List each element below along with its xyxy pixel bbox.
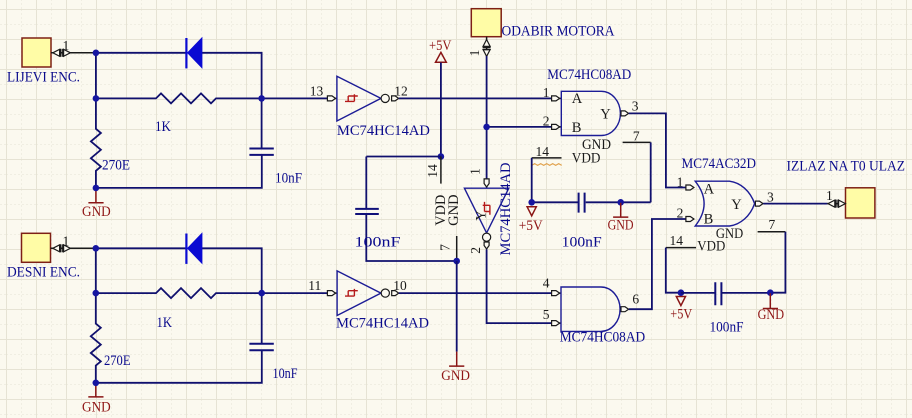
port LIJEVI ENC. — [7, 38, 80, 86]
wire bottom loop bottom-left — [96, 350, 262, 383]
pin 1 of port DESNI ENC. — [51, 233, 96, 252]
AND gate U2B MC74HC08AD — [543, 275, 646, 345]
resistor R 1K top — [96, 93, 262, 135]
svg-text:Y: Y — [474, 210, 490, 221]
svg-text:1: 1 — [826, 188, 833, 203]
pin 14 VDD of U2A — [532, 144, 601, 166]
wire pin3 OR to port — [763, 203, 828, 205]
svg-text:7: 7 — [633, 128, 640, 143]
svg-text:1: 1 — [677, 175, 684, 190]
pin 7 GND of U2A — [582, 128, 651, 202]
ground GND center — [441, 352, 470, 384]
svg-text:1: 1 — [467, 50, 482, 57]
ground GND bottom-left — [82, 383, 111, 415]
power +5V top — [429, 38, 452, 157]
svg-text:1: 1 — [467, 168, 482, 175]
svg-text:10nF: 10nF — [275, 170, 302, 186]
wire pin12 to AND A — [399, 97, 552, 99]
svg-text:100nF: 100nF — [562, 235, 602, 251]
svg-text:2: 2 — [468, 247, 483, 254]
pin 1 of port ODABIR MOTORA — [467, 37, 490, 57]
svg-text:1: 1 — [543, 85, 550, 100]
junction (440.9,156.5) — [438, 153, 445, 160]
svg-text:5: 5 — [543, 307, 550, 322]
junction (620.7,202.3) — [617, 199, 624, 206]
capacitor 100nF mid — [562, 193, 651, 251]
svg-text:1K: 1K — [157, 315, 173, 331]
resistor R 270E top — [91, 98, 130, 187]
pin 14 VDD of U3A — [666, 233, 726, 293]
wire node B down — [95, 248, 97, 293]
port DESNI ENC. — [7, 233, 80, 280]
svg-text:10nF: 10nF — [273, 366, 298, 382]
svg-text:100nF: 100nF — [710, 320, 744, 336]
schmitt inverter U1C MC74HC14AD rotated — [464, 162, 514, 255]
svg-text:GND: GND — [758, 307, 785, 323]
wire node B top — [96, 247, 187, 249]
svg-text:GND: GND — [441, 368, 470, 384]
wire bottom loop top-left — [96, 155, 262, 188]
svg-text:A: A — [704, 181, 715, 197]
svg-text:MC74HC08AD: MC74HC08AD — [560, 330, 646, 346]
junction (456.7,261) — [453, 258, 460, 265]
svg-text:B: B — [704, 211, 714, 227]
junction (531.7,202.3) — [528, 199, 535, 206]
capacitor 100nF right — [681, 282, 770, 336]
junction (95.9,187.9) — [93, 185, 100, 192]
pin 7 GND of U1C — [438, 236, 457, 261]
ground GND bottom right — [758, 293, 785, 323]
wire node A top — [96, 52, 186, 54]
svg-text:13: 13 — [310, 83, 324, 98]
wire node A down — [95, 53, 97, 99]
svg-text:VDD: VDD — [697, 239, 725, 255]
ground GND top-left — [82, 188, 111, 219]
capacitor 10nF bottom — [249, 293, 297, 382]
diode D2 — [186, 234, 202, 264]
svg-text:270E: 270E — [102, 158, 130, 174]
svg-text:GND: GND — [608, 218, 634, 234]
svg-text:3: 3 — [767, 190, 774, 205]
junction (486.6,126.9) — [483, 124, 490, 131]
svg-text:14: 14 — [670, 233, 684, 248]
wire diode to corner and down — [202, 53, 262, 99]
junction (261.7,293.1) — [258, 290, 265, 297]
svg-text:DESNI ENC.: DESNI ENC. — [7, 265, 80, 281]
AND gate U2A MC74HC08AD — [543, 67, 639, 136]
diode D1 — [186, 38, 202, 68]
svg-text:2: 2 — [543, 113, 550, 128]
svg-text:3: 3 — [632, 98, 639, 113]
power +5V mid — [519, 207, 543, 234]
wire ODABIR down — [486, 56, 488, 179]
pin 1 of port LIJEVI ENC. — [51, 38, 96, 57]
wire pin3 to OR pin1 — [629, 113, 686, 187]
junction (95.8,382.8) — [93, 380, 100, 387]
svg-text:6: 6 — [632, 292, 639, 307]
svg-text:MC74HC14AD: MC74HC14AD — [498, 162, 514, 255]
resistor R 270E bottom — [91, 293, 131, 383]
svg-text:14: 14 — [536, 144, 550, 159]
svg-text:IZLAZ NA T0 ULAZ: IZLAZ NA T0 ULAZ — [787, 159, 906, 175]
svg-text:MC74AC32D: MC74AC32D — [682, 156, 757, 172]
junction (95.9,52.8) — [93, 50, 100, 57]
wire gnd rail down — [456, 261, 458, 352]
wire pin2 of U1C to AND pin5 — [487, 249, 552, 323]
svg-text:270E: 270E — [104, 353, 131, 369]
svg-text:11: 11 — [308, 278, 321, 293]
port ODABIR MOTORA — [471, 9, 614, 40]
capacitor 10nF top — [249, 98, 302, 186]
wire pin13 — [262, 97, 328, 99]
svg-text:MC74HC08AD: MC74HC08AD — [547, 67, 631, 83]
junction (95.9,98.4) — [93, 95, 100, 102]
schmitt inverter U1B MC74HC14AD bottom — [308, 271, 429, 332]
schmitt inverter U1A MC74HC14AD top — [310, 76, 430, 139]
power +5V bottom right — [670, 297, 692, 323]
port IZLAZ NA T0 ULAZ — [787, 159, 906, 218]
svg-text:12: 12 — [394, 83, 408, 98]
svg-text:ODABIR MOTORA: ODABIR MOTORA — [502, 24, 615, 40]
svg-text:Y: Y — [600, 106, 611, 122]
svg-text:B: B — [572, 120, 582, 136]
svg-text:1: 1 — [63, 38, 70, 53]
svg-text:A: A — [572, 91, 583, 107]
svg-text:+5V: +5V — [670, 306, 692, 322]
svg-text:7: 7 — [769, 217, 776, 232]
pin 7 GND of U3A — [716, 217, 786, 293]
ground GND mid — [608, 203, 634, 234]
svg-text:10: 10 — [393, 278, 407, 293]
svg-text:2: 2 — [677, 206, 684, 221]
svg-text:1: 1 — [63, 233, 70, 248]
svg-text:LIJEVI ENC.: LIJEVI ENC. — [7, 70, 80, 86]
pin 1 of port IZLAZ — [826, 188, 846, 208]
pin 14 VDD of U1C — [425, 157, 441, 184]
wire pin6 to OR pin2 — [629, 219, 686, 309]
svg-text:MC74HC14AD: MC74HC14AD — [337, 123, 430, 139]
wire branch to AND B — [487, 126, 552, 128]
wire pin14 down to +5V rail — [532, 158, 578, 202]
svg-text:14: 14 — [425, 164, 440, 178]
resistor R 1K bottom — [96, 288, 262, 331]
svg-text:100nF: 100nF — [355, 235, 401, 251]
junction (680.9,292.7) — [678, 289, 685, 296]
OR gate U3A MC74AC32D — [677, 156, 774, 227]
svg-text:+5V: +5V — [429, 38, 452, 54]
junction (261.6,98.4) — [258, 95, 265, 102]
junction (770.3,292.7) — [767, 289, 774, 296]
svg-text:GND: GND — [82, 400, 111, 416]
svg-text:+5V: +5V — [519, 218, 543, 234]
junction (95.8,248.3) — [93, 245, 100, 252]
wire diode2 to corner and down — [202, 248, 262, 293]
wire vdd rail to cap — [366, 156, 441, 158]
capacitor 100nF left — [355, 157, 457, 262]
wire pin11 — [262, 292, 328, 294]
svg-text:4: 4 — [543, 275, 550, 290]
svg-text:GND: GND — [82, 204, 111, 220]
svg-text:7: 7 — [438, 244, 453, 251]
svg-text:VDD: VDD — [572, 151, 601, 167]
svg-text:1K: 1K — [155, 119, 171, 135]
svg-text:GND: GND — [446, 194, 462, 226]
svg-text:MC74HC14AD: MC74HC14AD — [336, 316, 429, 332]
wire pin10 to AND pin4 — [399, 292, 552, 294]
svg-text:Y: Y — [731, 197, 742, 213]
junction (95.8,293.1) — [93, 290, 100, 297]
